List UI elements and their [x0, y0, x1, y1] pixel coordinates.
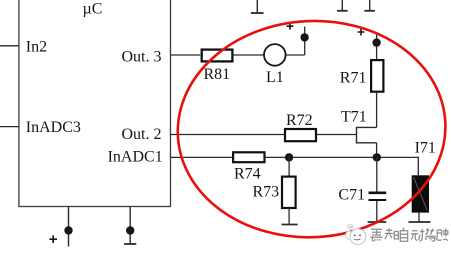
inductor/lamp L1: [264, 44, 286, 66]
ground top 1 bar: [251, 12, 264, 14]
red highlight ellipse: [172, 14, 451, 244]
photo element I71 diagonal: [414, 177, 428, 211]
char 驾: [425, 228, 435, 241]
plus sign supply L1: [287, 23, 294, 30]
wire T71 emitter down: [376, 143, 378, 158]
ground top 2 bar: [337, 10, 348, 12]
watermark text 焉知自动驾驶: [370, 228, 448, 241]
watermark logo blob small: [348, 224, 353, 229]
wire InADC1 corner down to I71: [417, 157, 419, 176]
svg-text:Out. 2: Out. 2: [122, 126, 162, 143]
watermark logo face: [354, 234, 361, 240]
char 动: [411, 229, 425, 241]
node supply L1: [300, 33, 308, 41]
ground top 1 stub: [256, 0, 258, 13]
char 驶: [437, 228, 448, 241]
µC bottom ground stub: [129, 207, 131, 245]
ground top 2 stub: [341, 0, 343, 11]
svg-text:R73: R73: [253, 184, 280, 201]
watermark logo paw mark: [349, 226, 352, 228]
svg-text:R71: R71: [340, 70, 367, 87]
photo element I71 body: [412, 175, 429, 212]
svg-text:C71: C71: [338, 187, 365, 204]
ground I71 bar: [409, 221, 431, 223]
capacitor C71 top plate: [369, 192, 387, 195]
wire supply drop to R71: [376, 32, 378, 60]
wire Out.3 pin to R81: [171, 54, 201, 56]
char 自: [400, 228, 407, 241]
resistor R73: [282, 177, 296, 208]
wire R74 to I71 corner: [266, 156, 419, 158]
char 焉: [370, 229, 382, 241]
svg-text:In2: In2: [26, 38, 47, 55]
plus sign µC supply: [49, 235, 57, 243]
ground C71 bar: [368, 221, 387, 223]
svg-text:R81: R81: [204, 66, 231, 83]
svg-text:R72: R72: [286, 112, 313, 129]
transistor T71: [357, 127, 377, 142]
svg-text:L1: L1: [266, 69, 284, 86]
capacitor C71 bottom plate: [369, 199, 387, 201]
wire Out.2 pin to R72: [171, 134, 285, 136]
svg-text:Out. 3: Out. 3: [122, 49, 162, 66]
wire down to R73: [288, 157, 290, 175]
svg-text:I71: I71: [415, 139, 436, 156]
wire R71 to T71 collector: [376, 93, 378, 128]
wire I71 to ground: [418, 213, 420, 222]
svg-text:R74: R74: [234, 166, 261, 183]
wire InADC1 pin to R74: [171, 156, 233, 158]
resistor R72: [285, 129, 316, 141]
wire R72 to T71 base: [317, 134, 357, 136]
wire R73 to ground: [288, 209, 290, 225]
µC bottom supply stub: [68, 207, 70, 247]
node C71 junction: [373, 153, 381, 161]
node µC bottom supply: [64, 226, 72, 234]
ground R73 bar: [282, 224, 298, 226]
svg-text:InADC1: InADC1: [108, 148, 163, 165]
svg-text:InADC3: InADC3: [26, 119, 81, 136]
plus sign supply R71: [358, 29, 365, 36]
resistor R71: [371, 60, 383, 92]
svg-text:µC: µC: [83, 1, 103, 18]
wire R81 to L1: [232, 54, 264, 56]
pin InADC3 wire: [0, 126, 19, 128]
node µC bottom ground: [126, 226, 134, 234]
watermark logo blob left: [346, 231, 354, 239]
wire down to C71: [376, 157, 378, 191]
resistor R81: [202, 50, 233, 62]
microcontroller U1 (µC) box: [19, 0, 171, 207]
node R73 junction: [285, 153, 293, 161]
wire supply drop for L1: [304, 27, 306, 56]
ground top 3 stub: [369, 0, 371, 11]
svg-text:T71: T71: [341, 109, 367, 126]
resistor R74: [233, 152, 264, 162]
watermark logo circle: [350, 229, 366, 245]
char 知: [385, 228, 399, 239]
ground µC bar: [124, 243, 136, 245]
wire L1 to supply corner: [286, 54, 305, 56]
node supply R71: [372, 38, 380, 46]
wire C71 to ground: [376, 201, 378, 222]
ground top 3 bar: [364, 10, 375, 12]
pin In2 wire: [0, 45, 19, 47]
